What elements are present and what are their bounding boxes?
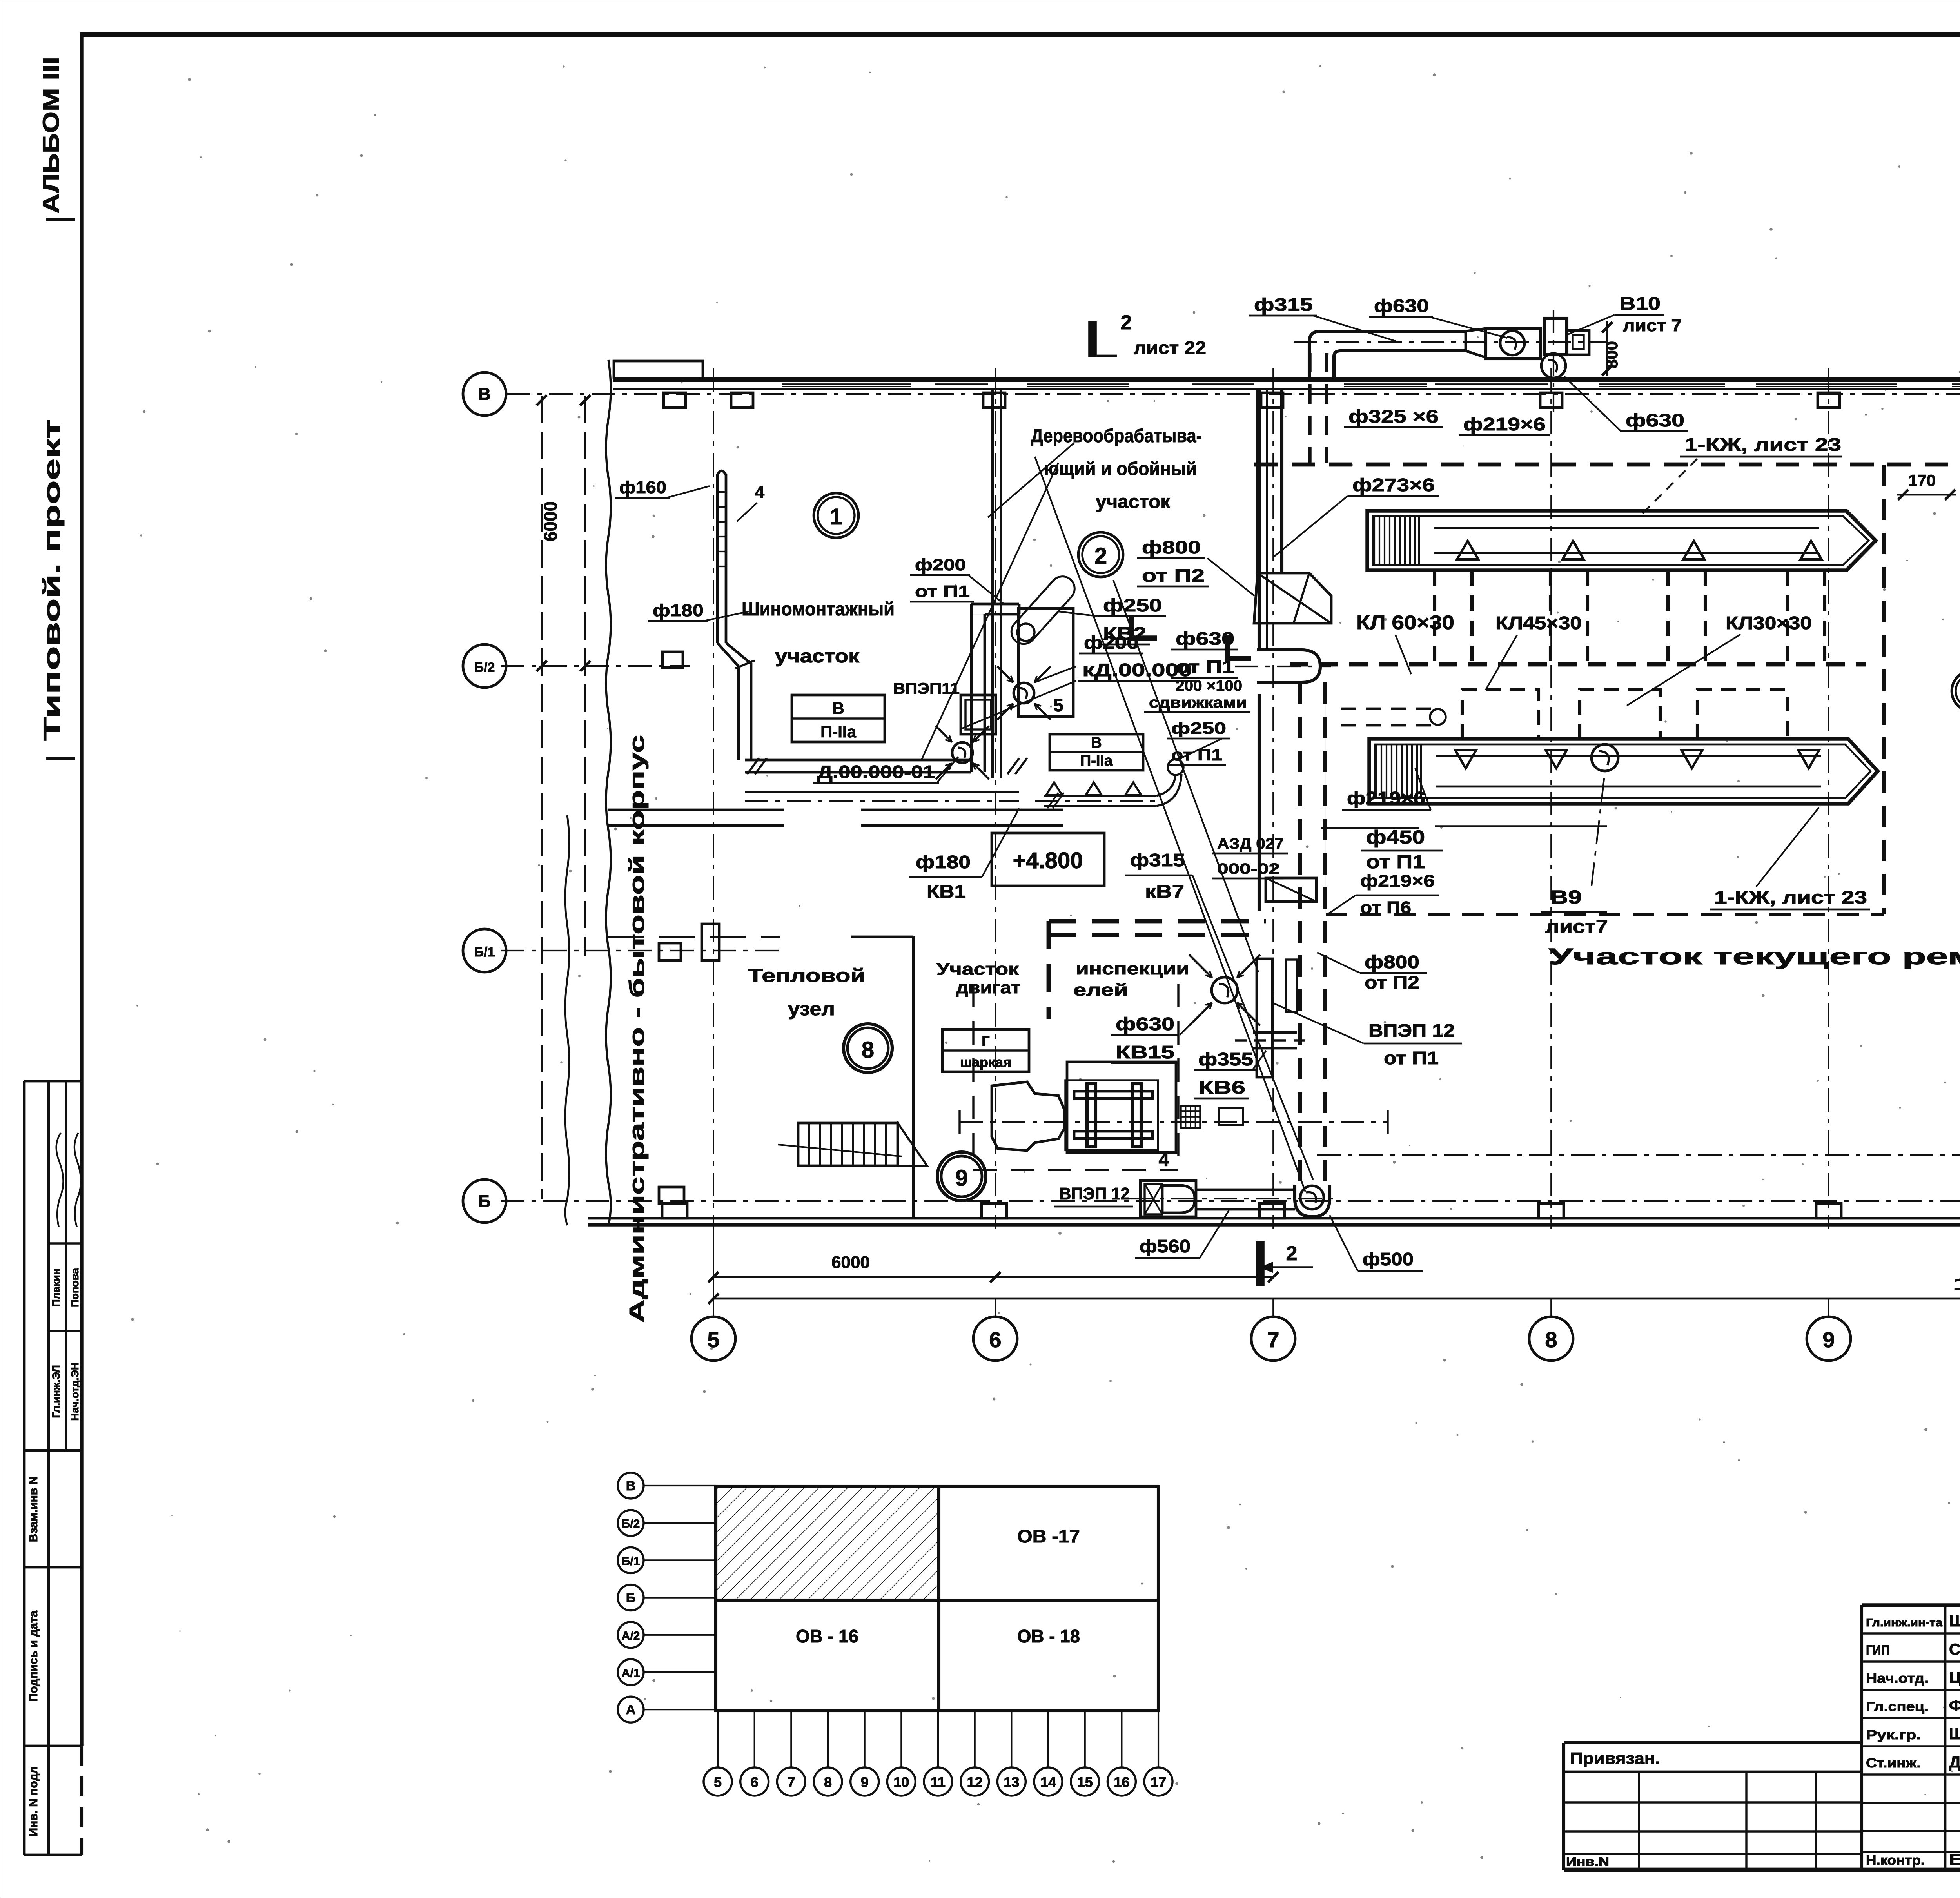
svg-text:шаркая: шаркая: [960, 1054, 1011, 1070]
svg-text:Есина: Есина: [1949, 1851, 1960, 1868]
svg-text:ф315: ф315: [1130, 850, 1185, 870]
svg-text:В: В: [478, 385, 491, 404]
svg-text:участок: участок: [1096, 492, 1171, 512]
svg-text:Участок: Участок: [936, 960, 1019, 979]
svg-text:17: 17: [1151, 1774, 1166, 1790]
svg-text:А/2: А/2: [622, 1629, 640, 1642]
svg-text:Гл.инж.ин-та: Гл.инж.ин-та: [1866, 1617, 1943, 1629]
svg-text:Типовой. проект: Типовой. проект: [39, 419, 65, 741]
svg-text:А/1: А/1: [622, 1667, 640, 1680]
svg-text:6: 6: [751, 1774, 759, 1790]
svg-text:5: 5: [707, 1327, 719, 1352]
svg-text:Б/1: Б/1: [622, 1555, 640, 1568]
svg-text:кВ7: кВ7: [1145, 881, 1184, 902]
svg-text:лист7: лист7: [1545, 916, 1608, 937]
svg-text:8: 8: [824, 1774, 832, 1790]
svg-text:Взам.инв N: Взам.инв N: [27, 1476, 40, 1542]
svg-text:лист 22: лист 22: [1134, 338, 1206, 358]
svg-text:А: А: [626, 1702, 636, 1717]
svg-text:ф200: ф200: [915, 555, 966, 574]
svg-text:+4.800: +4.800: [1013, 848, 1083, 873]
svg-text:Шиномонтажный: Шиномонтажный: [742, 599, 895, 620]
svg-text:КВ15: КВ15: [1116, 1042, 1174, 1062]
svg-text:16: 16: [1114, 1774, 1129, 1790]
svg-text:от П2: от П2: [1365, 972, 1419, 993]
svg-text:инспекции: инспекции: [1076, 959, 1189, 978]
svg-text:Нач.отд.ЭН: Нач.отд.ЭН: [69, 1362, 81, 1421]
svg-text:8: 8: [1545, 1327, 1557, 1352]
svg-text:12: 12: [967, 1774, 983, 1790]
svg-text:7: 7: [787, 1774, 795, 1790]
svg-text:ГИП: ГИП: [1866, 1643, 1889, 1658]
svg-text:Плакин: Плакин: [50, 1268, 62, 1307]
svg-text:АЗД 027: АЗД 027: [1217, 836, 1284, 852]
svg-text:ОВ -17: ОВ -17: [1017, 1526, 1080, 1546]
svg-text:В10: В10: [1619, 293, 1661, 314]
svg-text:14: 14: [1040, 1774, 1056, 1790]
svg-text:Инв. N подл: Инв. N подл: [27, 1766, 40, 1836]
svg-text:Шульман: Шульман: [1949, 1726, 1960, 1743]
svg-text:Гл.инж.ЭЛ: Гл.инж.ЭЛ: [50, 1365, 62, 1418]
svg-text:сдвижками: сдвижками: [1149, 695, 1247, 711]
svg-text:Нач.отд.: Нач.отд.: [1866, 1671, 1929, 1686]
svg-text:Цыганок: Цыганок: [1949, 1669, 1960, 1686]
svg-text:Б/2: Б/2: [622, 1517, 640, 1530]
svg-text:ВПЭП 12: ВПЭП 12: [1368, 1020, 1455, 1041]
svg-text:от П2: от П2: [1142, 565, 1205, 586]
svg-text:9: 9: [955, 1165, 968, 1191]
svg-text:ф315: ф315: [1254, 294, 1313, 315]
svg-text:Г: Г: [982, 1033, 989, 1049]
svg-text:ф800: ф800: [1365, 952, 1419, 972]
svg-text:от П6: от П6: [1360, 898, 1411, 917]
svg-text:2: 2: [1094, 543, 1107, 569]
svg-text:П-IIа: П-IIа: [820, 722, 857, 741]
svg-text:Федоркин: Федоркин: [1949, 1697, 1960, 1715]
svg-text:ф560: ф560: [1140, 1236, 1191, 1256]
svg-text:Серебрякова: Серебрякова: [1949, 1641, 1960, 1658]
svg-text:Демченко: Демченко: [1949, 1754, 1960, 1771]
svg-text:ющий и обойный: ющий и обойный: [1044, 459, 1197, 479]
svg-text:6000: 6000: [540, 501, 561, 541]
svg-text:ф273×6: ф273×6: [1352, 475, 1435, 495]
svg-text:ОВ - 18: ОВ - 18: [1017, 1626, 1080, 1646]
svg-text:8: 8: [862, 1037, 874, 1063]
svg-text:ф500: ф500: [1363, 1249, 1414, 1269]
svg-text:АЛЬБОМ III: АЛЬБОМ III: [38, 57, 64, 214]
svg-text:200 ×100: 200 ×100: [1176, 678, 1242, 694]
svg-text:ф355: ф355: [1198, 1049, 1253, 1069]
svg-text:6: 6: [989, 1327, 1001, 1352]
svg-text:КВ1: КВ1: [927, 881, 966, 902]
svg-text:4: 4: [755, 483, 765, 502]
svg-text:В: В: [626, 1479, 636, 1493]
svg-text:от П1: от П1: [915, 582, 970, 601]
svg-text:800: 800: [1602, 341, 1621, 368]
svg-text:Гл.спец.: Гл.спец.: [1866, 1699, 1929, 1714]
svg-text:ф630: ф630: [1626, 410, 1684, 430]
svg-text:ВПЭП 12: ВПЭП 12: [1059, 1184, 1130, 1203]
svg-text:12×6000=72.000: 12×6000=72.000: [1952, 1274, 1960, 1294]
svg-text:9: 9: [1822, 1327, 1835, 1352]
svg-text:Б: Б: [626, 1591, 635, 1606]
svg-text:Попова: Попова: [69, 1268, 81, 1307]
svg-text:10: 10: [893, 1774, 909, 1790]
svg-text:000-02: 000-02: [1217, 861, 1280, 877]
svg-text:ф800: ф800: [1142, 537, 1201, 557]
svg-text:ф250: ф250: [1103, 595, 1162, 615]
svg-text:ф180: ф180: [653, 601, 704, 620]
svg-text:13: 13: [1004, 1774, 1019, 1790]
svg-text:КЛ30×30: КЛ30×30: [1726, 613, 1812, 633]
svg-text:от П1: от П1: [1171, 746, 1222, 764]
svg-text:Д.00.000-01: Д.00.000-01: [817, 762, 935, 782]
svg-text:ф630: ф630: [1374, 296, 1429, 316]
svg-text:Б/2: Б/2: [474, 660, 495, 675]
svg-text:Инв.N: Инв.N: [1566, 1854, 1609, 1869]
svg-text:ОВ - 16: ОВ - 16: [796, 1626, 858, 1646]
svg-text:Рук.гр.: Рук.гр.: [1866, 1727, 1921, 1742]
svg-text:Б/1: Б/1: [474, 945, 495, 960]
svg-text:двигат: двигат: [956, 978, 1021, 997]
svg-text:ф325 ×6: ф325 ×6: [1348, 406, 1439, 426]
svg-text:Ст.инж.: Ст.инж.: [1866, 1756, 1921, 1771]
svg-text:1-КЖ, лист 23: 1-КЖ, лист 23: [1684, 434, 1841, 455]
svg-text:ф630: ф630: [1116, 1014, 1174, 1034]
svg-text:Подпись и дата: Подпись и дата: [27, 1610, 40, 1702]
svg-text:В9: В9: [1550, 887, 1582, 908]
svg-text:7: 7: [1267, 1327, 1279, 1352]
svg-text:ф450: ф450: [1366, 827, 1425, 848]
svg-text:Шестернев: Шестернев: [1949, 1613, 1960, 1630]
svg-text:ф219×6: ф219×6: [1463, 414, 1546, 434]
svg-text:Б: Б: [478, 1192, 491, 1211]
svg-text:ф219×6: ф219×6: [1347, 788, 1425, 808]
svg-text:елей: елей: [1073, 980, 1128, 1000]
svg-text:ф219×6: ф219×6: [1360, 871, 1435, 891]
svg-text:КЛ45×30: КЛ45×30: [1495, 613, 1582, 633]
svg-text:П-IIа: П-IIа: [1080, 753, 1113, 769]
svg-text:Деревообрабатыва-: Деревообрабатыва-: [1031, 426, 1202, 446]
svg-text:В: В: [832, 699, 844, 717]
svg-text:9: 9: [861, 1774, 869, 1790]
svg-text:ф250: ф250: [1171, 719, 1226, 737]
svg-text:11: 11: [931, 1774, 946, 1790]
svg-text:лист 7: лист 7: [1623, 316, 1682, 335]
svg-text:1-КЖ, лист 23: 1-КЖ, лист 23: [1714, 887, 1867, 907]
svg-text:В: В: [1091, 735, 1102, 751]
svg-text:5: 5: [714, 1774, 722, 1790]
svg-text:ВПЭП11: ВПЭП11: [893, 680, 960, 697]
svg-text:Тепловой: Тепловой: [748, 965, 866, 986]
svg-text:ф180: ф180: [916, 852, 971, 872]
svg-text:5: 5: [1053, 695, 1063, 715]
svg-text:Административно - бытовой кор: Административно - бытовой корпус: [625, 735, 649, 1323]
svg-text:от П1: от П1: [1366, 852, 1425, 873]
svg-text:узел: узел: [788, 999, 835, 1020]
svg-text:Н.контр.: Н.контр.: [1866, 1853, 1925, 1868]
svg-text:1: 1: [830, 504, 842, 530]
svg-text:КВ6: КВ6: [1198, 1077, 1245, 1098]
svg-text:6000: 6000: [831, 1253, 870, 1272]
svg-text:участок: участок: [775, 646, 860, 667]
svg-text:от П1: от П1: [1384, 1048, 1439, 1068]
svg-text:2: 2: [1121, 311, 1132, 334]
svg-text:ф160: ф160: [619, 478, 666, 497]
svg-text:Привязан.: Привязан.: [1570, 1749, 1660, 1767]
svg-text:КЛ 60×30: КЛ 60×30: [1356, 611, 1454, 633]
svg-text:Участок текущего ремонта ав: Участок текущего ремонта автомобилей: [1548, 944, 1960, 969]
svg-text:170: 170: [1908, 471, 1936, 490]
svg-text:15: 15: [1077, 1774, 1093, 1790]
svg-text:2: 2: [1286, 1242, 1298, 1265]
